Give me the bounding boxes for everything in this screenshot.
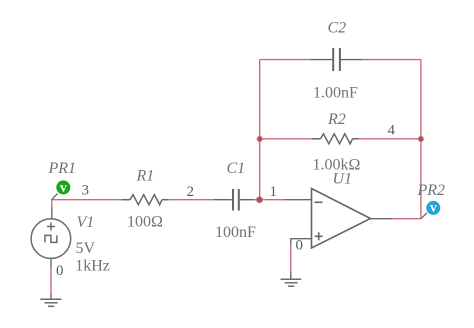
node 1 junction dot — [256, 196, 263, 203]
svg-text:0: 0 — [56, 263, 64, 279]
wire: op-amp output pin (gray) — [371, 218, 392, 220]
wire: V1 to ground G1 (red) — [50, 268, 52, 294]
svg-text:C1: C1 — [227, 160, 246, 177]
wire: top feedback horizontal right of C2 (red) — [362, 59, 421, 61]
svg-text:1.00nF: 1.00nF — [313, 84, 358, 101]
node junction dot right R2 / node 4 — [418, 136, 425, 143]
svg-text:C2: C2 — [328, 20, 347, 37]
svg-text:2: 2 — [187, 184, 195, 200]
svg-text:100nF: 100nF — [215, 224, 256, 241]
probe PR1 — [56, 180, 70, 194]
wire: top feedback horizontal left of C2 (red) — [260, 59, 311, 61]
probe PR2 — [426, 201, 440, 215]
wire: V1 bottom pin (gray) — [50, 259, 52, 268]
svg-text:1: 1 — [270, 184, 278, 200]
svg-text:PR1: PR1 — [48, 160, 77, 177]
resistor R2 — [312, 134, 359, 144]
op-amp U1 — [312, 189, 371, 249]
capacitor C1 — [214, 189, 254, 211]
svg-text:5V: 5V — [76, 240, 96, 257]
ground G2 — [281, 279, 302, 286]
svg-text:3: 3 — [82, 182, 90, 198]
wire: left feedback vertical node 1 (red) — [259, 60, 261, 200]
wire: ground G1 pin (gray) — [50, 294, 52, 299]
wire: ground G2 pin (gray) — [290, 271, 292, 279]
ground G1 — [40, 299, 61, 306]
svg-text:0: 0 — [296, 238, 304, 254]
wire: R1 to C1 (red) — [169, 199, 215, 201]
wire: right feedback vertical (red) — [420, 60, 422, 219]
wire: node 3 corner to R1 (red) — [52, 200, 122, 207]
wire: op-amp output to PR2 corner (red) — [392, 218, 422, 220]
node junction dot left R2 — [256, 136, 263, 143]
capacitor C2 — [311, 48, 363, 71]
svg-text:U1: U1 — [333, 171, 353, 188]
svg-text:PR2: PR2 — [417, 182, 446, 199]
wire: V1 top pin (gray) — [51, 207, 53, 219]
wire: op-amp inverting input pin (gray) — [285, 199, 312, 201]
wire: R2 branch left of R2 (red) — [260, 138, 312, 140]
voltage source V1 — [31, 219, 71, 259]
resistor R1 — [122, 195, 169, 205]
probe PR1 attach line — [52, 193, 58, 199]
wire: R2 branch node 4 to right vertical (red) — [359, 138, 421, 140]
wire: non-inverting input to ground (red) — [290, 245, 292, 272]
svg-text:v: v — [430, 201, 437, 216]
wire: C1 to node 1 junction and op-amp (red) — [254, 199, 285, 201]
svg-text:R2: R2 — [327, 111, 346, 128]
svg-text:v: v — [60, 180, 67, 195]
svg-text:1kHz: 1kHz — [75, 257, 110, 274]
svg-text:R1: R1 — [136, 168, 155, 185]
probe PR2 attach line — [421, 213, 427, 219]
svg-text:4: 4 — [388, 123, 396, 139]
svg-text:100Ω: 100Ω — [127, 214, 163, 231]
svg-text:V1: V1 — [77, 214, 95, 231]
wire: op-amp non-inverting input pin (gray) — [291, 239, 312, 245]
